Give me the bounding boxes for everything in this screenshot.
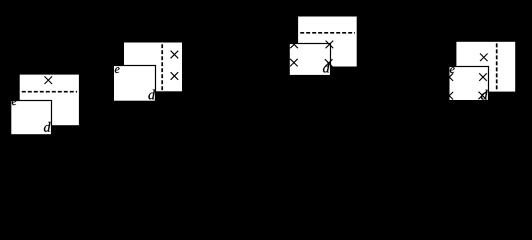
figure 1 label d [44, 122, 51, 132]
figure 4 large rectangle [456, 41, 516, 92]
figure 1 cross mark above dashed line [45, 76, 53, 84]
figure 4 small rectangle [449, 67, 489, 101]
figure 2 small rectangle [113, 66, 155, 102]
figure 1 small rectangle [11, 101, 52, 135]
figure 4 label d [481, 90, 488, 100]
figure 2 large rectangle [123, 42, 182, 92]
figure 2 label d [148, 89, 155, 99]
figure 4 cross mark above small rectangle [480, 54, 488, 62]
figure 2 upper cross mark [171, 51, 179, 59]
figure 4 cross mark upper-right inside [479, 73, 487, 81]
figure 3 large rectangle [298, 16, 358, 67]
figure 4 cross mark upper-left on edge [446, 73, 454, 81]
figure 3 cross mark mid-right on edge [325, 59, 333, 67]
figure 3 cross mark top-right corner [326, 41, 334, 49]
figure 2 label e [115, 67, 120, 73]
figure 4 cross mark lower-left on edge [446, 92, 454, 100]
figure 1 large rectangle [19, 74, 79, 126]
figure 3 cross mark top-left corner [290, 41, 298, 49]
figure 4 cross mark over label d [479, 92, 487, 100]
figure 3 small rectangle [289, 44, 330, 76]
figure 2 vertical dashed cut line [161, 44, 163, 90]
figure 4 vertical dashed cut line [496, 43, 498, 90]
figure 3 cross mark mid-left [290, 59, 298, 67]
figure 3 horizontal dashed cut line [300, 32, 355, 34]
figure 1 label e [12, 99, 17, 105]
figure 3 label d [323, 63, 330, 73]
figure 1 horizontal dashed cut line [22, 91, 77, 93]
figure 2 lower cross mark [171, 72, 179, 80]
figure 4 label e [450, 67, 455, 73]
